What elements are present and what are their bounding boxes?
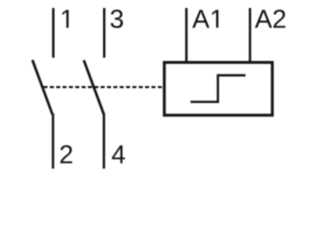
wire: pole 2 top terminal lead (terminal 3) [103,8,105,58]
label terminal 3 [111,10,123,28]
label terminal 1 [62,10,68,28]
step-function (latching) symbol inside box [191,75,246,102]
mechanical linkage (dashed actuator line) [44,86,164,88]
label terminal 4 [112,145,125,163]
contact blade pole 2 (NO contact) [84,60,104,114]
label terminal A1 [192,10,209,28]
wire: coil terminal lead A1 [185,8,187,62]
label terminal A2 [255,10,272,28]
label terminal 2 [60,145,72,163]
wire: pole 1 bottom terminal lead (terminal 2) [52,114,54,169]
wire: pole 1 top terminal lead (terminal 1) [52,8,54,58]
wire: coil terminal lead A2 [249,8,251,62]
contact blade pole 1 (NO contact) [32,60,52,115]
wire: pole 2 bottom terminal lead (terminal 4) [103,114,105,169]
coil / latching-relay box K1 [164,62,272,115]
